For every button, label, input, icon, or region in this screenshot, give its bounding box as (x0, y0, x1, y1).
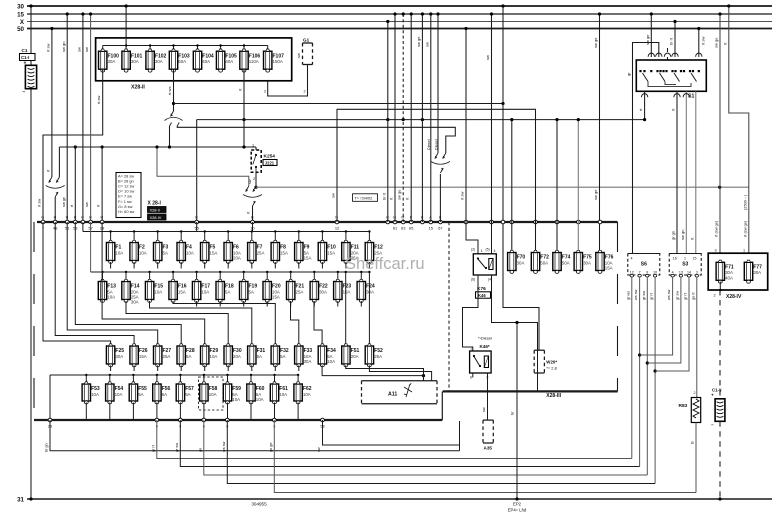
wire F57 output to bottom rail (179, 403, 181, 421)
svg-text:X28-III: X28-III (546, 393, 561, 399)
svg-text:10A: 10A (209, 392, 217, 397)
svg-text:br rt: br rt (669, 37, 674, 45)
wire W20 supply (503, 104, 539, 351)
svg-text:sw: sw (84, 202, 89, 207)
svg-text:sw ge: sw ge (416, 36, 421, 47)
svg-text:rt sw: rt sw (96, 95, 101, 104)
fuse F102 30A (146, 49, 167, 72)
hook S1 out a (641, 94, 647, 98)
svg-text:K46*: K46* (480, 344, 490, 349)
generator G1 box (303, 43, 313, 65)
svg-text:2: 2 (264, 90, 266, 94)
svg-text:50: 50 (17, 26, 24, 33)
switch S1 box (636, 60, 706, 91)
fuse F106 110A (240, 49, 261, 72)
svg-text:sw ge: sw ge (645, 34, 650, 45)
svg-text:H: H (74, 216, 77, 220)
label X28-IV (726, 294, 742, 300)
svg-text:rt sw: rt sw (37, 199, 42, 207)
fuse F5 15A (201, 240, 218, 263)
wire F56 output to bottom rail (156, 403, 158, 421)
wire S3 pin13 merge (647, 277, 681, 363)
svg-text:3: 3 (696, 270, 698, 274)
wire F103 split to node 147 (168, 126, 171, 149)
svg-text:gn: gn (198, 448, 202, 452)
fuse F3 5A (154, 240, 169, 263)
svg-text:15A: 15A (280, 250, 288, 255)
svg-text:T= □04/02: T= □04/02 (355, 195, 373, 200)
fuse F56 5A (153, 382, 171, 404)
wire S6 pin12 drop (626, 277, 632, 459)
splitter connector F103 (165, 111, 183, 126)
wire F51 feed (345, 271, 347, 345)
relay K46* box (470, 351, 492, 373)
svg-text:30A: 30A (108, 59, 116, 64)
fuse F8 15A (271, 240, 288, 263)
svg-text:H: H (100, 216, 103, 220)
svg-text:*= 2,8: *= 2,8 (546, 366, 557, 371)
svg-text:2: 2 (714, 294, 716, 298)
label X28-II (131, 85, 145, 91)
svg-text:br rt: br rt (381, 192, 386, 200)
wire 30-net to pin 55 (196, 120, 198, 222)
svg-text:10A: 10A (210, 354, 218, 359)
wire F22 output stub (313, 301, 315, 307)
wire F27 output stub (157, 365, 159, 371)
wire 109-net (331, 109, 536, 252)
svg-text:30A: 30A (753, 270, 761, 275)
fuse F76 10A (596, 250, 614, 273)
svg-text:10: 10 (653, 270, 657, 274)
svg-text:10A: 10A (107, 295, 115, 300)
connector S3 box (669, 254, 701, 276)
wire battery C1 to bus 30 (29, 4, 32, 65)
fuse F29 10A (201, 344, 219, 367)
svg-text:40A: 40A (202, 59, 210, 64)
svg-text:rt sw: rt sw (46, 43, 51, 52)
fuse F75 30A (574, 250, 592, 273)
component A11 box (362, 381, 438, 404)
wire sw ge dashed to pin 63 (397, 12, 405, 222)
svg-text:50A: 50A (562, 260, 570, 265)
wire F58 output to bottom rail (203, 403, 205, 421)
svg-text:50A: 50A (540, 260, 548, 265)
wire bottom net A (50, 420, 460, 451)
label S1 (688, 94, 694, 100)
svg-text:5A: 5A (138, 392, 143, 397)
fuse F107 150A (264, 49, 285, 72)
svg-text:30A: 30A (115, 354, 123, 359)
label X28-III (546, 393, 561, 399)
connector X28-III bottom edge (443, 390, 618, 392)
wire bottom net F (274, 420, 696, 493)
fuse F31 5A (248, 344, 266, 367)
svg-text:sw: sw (77, 47, 82, 52)
svg-text:R83: R83 (679, 403, 688, 409)
wire R83 bottom to net (690, 423, 697, 493)
svg-text:15: 15 (429, 226, 433, 231)
svg-text:sw: sw (84, 47, 89, 52)
svg-text:X28-II: X28-II (131, 85, 145, 91)
fuse F55 5A (129, 382, 147, 404)
svg-text:X 28-I: X 28-I (148, 201, 162, 207)
svg-text:+: + (711, 392, 714, 397)
svg-text:H: H (195, 216, 198, 220)
wire sw bus15 to K76 feed (485, 12, 493, 222)
connector rail X28 top edge with pins (37, 216, 618, 231)
bottom wire colour labels (45, 441, 322, 452)
wire bottom net B (157, 420, 632, 459)
svg-text:15A: 15A (272, 295, 280, 300)
wire S1 output to S3 pin16 (671, 91, 678, 253)
wire F1 output stub (110, 262, 112, 269)
svg-text:A11: A11 (388, 391, 397, 397)
wire F31 output stub (251, 365, 253, 371)
fuse F28 5A (177, 344, 195, 367)
wire F51 to A11 (346, 365, 424, 380)
wire F23 output stub (337, 301, 339, 307)
svg-text:sw: sw (424, 42, 429, 47)
fuse F2 10A (130, 240, 147, 263)
svg-text:61: 61 (393, 226, 397, 231)
wire S1 br rt from bus X (669, 20, 677, 57)
wire F11 output stub (345, 262, 347, 269)
connector S6 bottom pins (630, 270, 657, 277)
svg-text:sw: sw (485, 55, 490, 60)
generator G1 label (303, 38, 310, 43)
svg-text:10A: 10A (139, 250, 147, 255)
svg-text:G1: G1 (303, 38, 310, 43)
fuse F6 10A (224, 240, 241, 263)
fuse F15 10A (145, 279, 163, 302)
svg-text:rt sw: rt sw (460, 191, 465, 200)
svg-text:40A: 40A (225, 59, 233, 64)
svg-text:*›Diesel: *›Diesel (478, 336, 492, 341)
fuse F62 10A (294, 382, 312, 404)
svg-text:1: 1 (252, 144, 254, 148)
relay K76 labels (471, 278, 492, 299)
svg-text:gr rt: gr rt (650, 292, 654, 300)
svg-text:(2): (2) (471, 248, 475, 252)
crossing connector left pair (46, 177, 65, 197)
wire node 147 horizontal (59, 146, 256, 148)
central unit right dashed edge (617, 222, 619, 391)
svg-text:1: 1 (481, 249, 483, 253)
svg-text:25A: 25A (257, 250, 265, 255)
svg-text:10A: 10A (303, 392, 311, 397)
svg-text:15A: 15A (605, 266, 613, 271)
hook S1 out c (683, 94, 689, 98)
wire pin58 drop (323, 420, 460, 451)
fuse F104 40A (193, 49, 214, 72)
wire S6 pin7 drop (634, 277, 641, 467)
fuse F32 5A (271, 344, 289, 367)
wire node 103 horizontal (174, 103, 504, 105)
svg-text:sw gn: sw gn (61, 42, 66, 52)
svg-text:5A: 5A (186, 354, 191, 359)
svg-text:30: 30 (17, 3, 24, 10)
svg-text:sw: sw (296, 53, 301, 58)
fuse F61 10A (270, 382, 288, 404)
svg-text:H: H (66, 216, 69, 220)
battery C1-II labels (711, 388, 722, 428)
glow plug W20* box (534, 350, 544, 373)
wire bottom net C (180, 420, 639, 467)
bus 50 (starter) (17, 26, 772, 33)
svg-text:H: H (251, 216, 254, 220)
svg-text:30A: 30A (131, 59, 139, 64)
battery C1-II symbol (715, 399, 725, 422)
wire node147 to crossing (58, 147, 60, 177)
svg-text:C1-I: C1-I (21, 55, 29, 60)
wire F8 output stub (274, 262, 276, 269)
svg-text:−: − (711, 423, 714, 428)
hook S1 pin a (648, 53, 654, 57)
bus 31 (ground) (17, 496, 772, 503)
fuse F51 20A (342, 344, 360, 367)
svg-text:(5): (5) (486, 248, 490, 252)
svg-text:60A: 60A (178, 59, 186, 64)
connector S6 box (628, 254, 660, 276)
bus 30 (battery +) (17, 3, 772, 10)
fuse F59 5A (223, 382, 241, 404)
wire sw bus 15 to pin 15 (424, 12, 432, 222)
fuse F58 10A (200, 382, 218, 404)
svg-text:H: H (81, 216, 84, 220)
relay K46* pins (470, 376, 489, 380)
fuse F13 5A (98, 279, 116, 302)
fuse F21 25A (287, 279, 305, 302)
fuse F54 10A (106, 382, 124, 404)
wire F6 output stub (227, 262, 229, 269)
svg-text:30A: 30A (366, 289, 374, 294)
wire S3 pin14 merge (655, 277, 689, 371)
fuse F23 10A (334, 279, 352, 302)
svg-text:6: 6 (470, 376, 472, 380)
row1 fuse feed bus (83, 222, 371, 240)
fuse F60 5A (247, 382, 265, 404)
W20 labels (546, 360, 557, 371)
svg-text:10A: 10A (186, 250, 194, 255)
svg-text:5A: 5A (162, 392, 167, 397)
svg-text:2: 2 (471, 347, 473, 351)
wire F19 output stub (243, 301, 245, 307)
fuse F9 5A (295, 240, 312, 263)
fuse F57 5A (176, 382, 194, 404)
wire F9 output stub (298, 262, 300, 269)
svg-text:br gn: br gn (45, 443, 49, 452)
bus 15 (ignition) (17, 11, 772, 18)
wire sw gn from bus 15 to pin 51 (61, 12, 69, 222)
svg-text:4: 4 (494, 249, 496, 253)
wire F24 output stub (360, 301, 362, 307)
svg-text:31: 31 (17, 496, 24, 503)
fuse F27 25A (154, 344, 172, 367)
fuse F11 20A (342, 240, 360, 263)
svg-text:30A: 30A (583, 260, 591, 265)
wire F32 output stub (274, 365, 276, 371)
svg-text:Diesel: Diesel (435, 139, 439, 150)
fuse F70 30A (508, 250, 526, 273)
svg-text:10A: 10A (232, 397, 240, 402)
svg-text:3: 3 (715, 249, 717, 253)
svg-text:ws sw: ws sw (634, 289, 638, 300)
wire K76 pin4 out (492, 275, 538, 391)
fuse F7 25A (248, 240, 265, 263)
wire F21 output stub (290, 301, 292, 307)
wire S3 pin3 to R83 (691, 277, 697, 398)
switch S1 contacts (639, 70, 700, 87)
wire F61 output to bottom rail (274, 403, 276, 421)
svg-text:K46: K46 (478, 293, 486, 298)
svg-text:sw ge: sw ge (397, 189, 402, 200)
wire S1 output to S3 pin1 (680, 91, 687, 253)
svg-text:ge rt: ge rt (691, 291, 695, 300)
fuse F103 60A (169, 49, 190, 72)
svg-text:12: 12 (335, 226, 339, 231)
wire sw ge bus15 to F76 (593, 12, 601, 252)
fuse F10 15A (318, 240, 336, 263)
svg-text:10A: 10A (201, 289, 209, 294)
fuse F30 20A (224, 344, 242, 367)
svg-text:30A: 30A (319, 289, 327, 294)
svg-text:30A: 30A (304, 359, 312, 364)
svg-text:sw ge: sw ge (593, 189, 598, 200)
wire F70 feed (510, 118, 513, 253)
svg-text:20A: 20A (233, 354, 241, 359)
svg-text:15: 15 (17, 11, 24, 18)
wire battery C1 to bus 31 (29, 89, 32, 501)
wire S3 pin4 merge (640, 277, 673, 355)
wire F33 output stub (298, 365, 300, 371)
wire F60 output to bottom rail (250, 403, 252, 421)
svg-text:sw: sw (331, 193, 336, 198)
X28-IV pin labels (714, 249, 746, 298)
dashed wire X28-IV pin2 to C1-II (719, 290, 721, 399)
hook S1 pin c (672, 53, 678, 57)
svg-text:ws sw: ws sw (667, 289, 671, 300)
wire F30 output stub (227, 365, 229, 371)
wire F4 output stub (180, 262, 182, 269)
svg-text:rt (sw ge): rt (sw ge) (742, 220, 747, 237)
wire F34 feed (314, 301, 322, 344)
wire F62 output to bottom rail (297, 403, 299, 421)
wire S1 loop output gr (626, 43, 659, 254)
svg-text:14: 14 (687, 270, 691, 274)
battery C1 labels (20, 48, 36, 96)
wire 30-net horizontal (197, 118, 645, 121)
legend wire-gauge table (116, 173, 141, 218)
svg-text:sw ge: sw ge (714, 37, 719, 48)
svg-text:gr gn: gr gn (671, 231, 676, 240)
svg-text:2: 2 (304, 90, 306, 94)
svg-text:9: 9 (646, 270, 648, 274)
battery C1-I symbol (25, 65, 36, 88)
svg-text:W20*: W20* (546, 360, 557, 365)
svg-text:30A: 30A (155, 59, 163, 64)
wire K76 pin4 feed (486, 222, 496, 254)
wire rt sw ge bus15 to X28-IV pin3 (714, 12, 722, 253)
fuse F52 25A (365, 344, 383, 367)
fuse box X28-II outline (96, 38, 292, 81)
hook S1 out b (674, 94, 680, 98)
svg-text:5A: 5A (257, 354, 262, 359)
svg-text:10A: 10A (256, 397, 264, 402)
svg-text:10A: 10A (91, 392, 99, 397)
hook S1 pin c2 (664, 48, 670, 60)
svg-text:S3: S3 (682, 262, 688, 268)
svg-text:16: 16 (673, 257, 677, 261)
relay K254 box (251, 150, 261, 172)
wire F33 feed (291, 301, 299, 344)
wire K76 pin1 feed (466, 222, 483, 254)
wire S1 sw ge from bus 15 (645, 12, 653, 57)
wire F5 output stub (204, 262, 206, 269)
svg-text:A35: A35 (484, 446, 493, 451)
wire bottom net D (204, 420, 648, 475)
wire F3 output stub (157, 262, 159, 269)
optional fuse dashed outline F58 (199, 377, 224, 410)
label A11 and antenna symbol (388, 383, 412, 397)
svg-text:H= 60 sw: H= 60 sw (118, 209, 135, 214)
fuse F74 50A (553, 250, 571, 273)
svg-text:15A: 15A (178, 289, 186, 294)
bus X (20, 19, 772, 26)
svg-text:2: 2 (253, 177, 255, 181)
fuse F71 30A (716, 260, 734, 283)
wire diesel to pin 67 (439, 174, 441, 222)
X28-II internal supply rail (103, 44, 268, 49)
svg-text:sw: sw (317, 447, 321, 452)
svg-text:C1: C1 (22, 48, 28, 53)
svg-text:Diesel: Diesel (427, 139, 431, 150)
wire K254 output (248, 172, 258, 188)
wire pin 53 rise (69, 145, 77, 222)
svg-text:15A: 15A (304, 256, 312, 261)
svg-text:10A: 10A (115, 250, 123, 255)
wire S1 rt sw from bus 50 (697, 27, 705, 57)
wire S6 pin9 drop (642, 277, 649, 475)
wire F59 output to bottom rail (227, 403, 229, 421)
svg-text:(6): (6) (471, 278, 475, 282)
svg-text:(2500→): (2500→) (742, 194, 747, 210)
hook S1 pin d (696, 53, 702, 57)
wire F52 to A11 (369, 365, 431, 380)
wire K46 pin6 stub (472, 373, 474, 378)
wire K46 to A35 (482, 373, 488, 420)
wire bus30 drop to W20 feed (501, 4, 504, 105)
wire F53 output to bottom rail (85, 403, 87, 421)
fuse F105 40A (216, 49, 237, 72)
svg-text:20A: 20A (351, 354, 359, 359)
svg-text:10A: 10A (343, 289, 351, 294)
wire F55 output to bottom rail (132, 403, 134, 421)
label X28-I (148, 201, 162, 207)
label X28-II black tag (148, 207, 167, 213)
connector X28-IV box (708, 253, 768, 290)
wire br to ground EP2 (511, 323, 519, 501)
svg-text:sw: sw (482, 407, 486, 412)
svg-text:25A: 25A (374, 354, 382, 359)
wire S1 output to 30-net (638, 91, 646, 121)
wire sw gn bus 15 to pin 65 (405, 12, 413, 222)
wire F17 output stub (196, 301, 198, 307)
wire sw ge bus 15 (416, 12, 424, 222)
drawing number 304955 (251, 502, 267, 507)
wire rt sw from bus 50 (46, 27, 54, 177)
fuse F12 25A (365, 240, 383, 263)
svg-text:40A: 40A (725, 275, 733, 280)
